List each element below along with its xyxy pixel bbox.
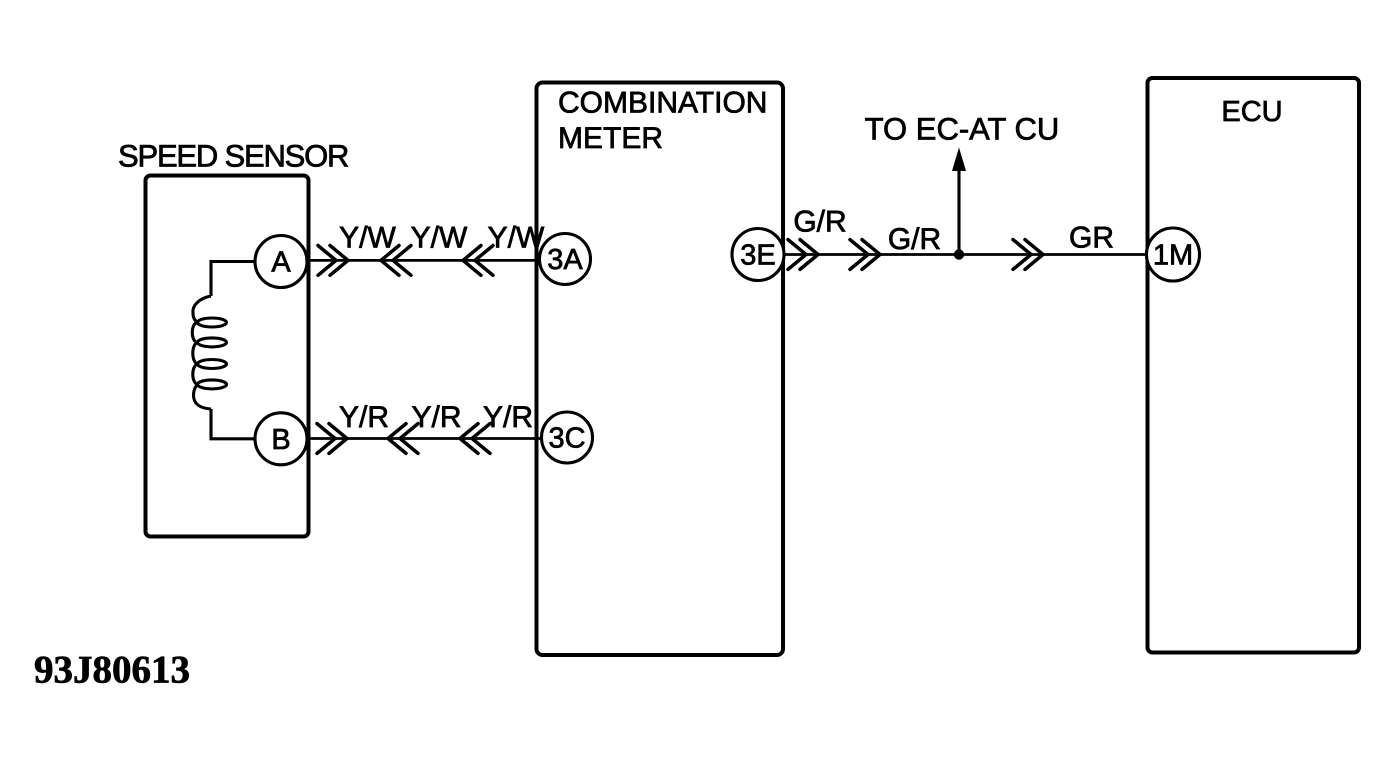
connector chevron left-pointing on Y/W wire (right) (463, 246, 493, 276)
svg-text:G/R: G/R (888, 223, 941, 256)
svg-text:ECU: ECU (1221, 96, 1282, 128)
terminal A (speed sensor pin A) (255, 236, 307, 288)
connector chevron left-pointing on Y/R wire (middle) (388, 424, 418, 454)
connector chevron left-pointing on Y/R wire (right) (460, 424, 490, 454)
svg-text:93J80613: 93J80613 (34, 649, 190, 692)
wire: terminal A to coil top (211, 262, 256, 297)
svg-text:B: B (271, 424, 290, 456)
terminal 3E (combination meter pin 3E) (732, 229, 784, 281)
combination meter box (537, 83, 784, 656)
svg-text:G/R: G/R (793, 206, 846, 239)
svg-text:3E: 3E (740, 240, 775, 272)
terminal 3C (combination meter pin 3C) (542, 412, 593, 463)
connector chevron right-pointing on Y/W wire (318, 246, 348, 276)
terminal 1M (ECU pin 1M) (1147, 228, 1200, 281)
svg-text:SPEED SENSOR: SPEED SENSOR (118, 139, 348, 174)
connector chevron right-pointing on Y/R wire (317, 424, 347, 454)
svg-text:3A: 3A (547, 244, 583, 276)
label: COMBINATION METER (558, 87, 767, 156)
terminal B (speed sensor pin B) (255, 413, 307, 465)
connector chevron right-pointing on G/R wire (third) (1013, 240, 1043, 270)
svg-text:Y/R: Y/R (483, 401, 533, 434)
svg-text:COMBINATION: COMBINATION (558, 87, 767, 120)
wire: 3E to 1M (G/R) (783, 253, 1148, 256)
svg-text:METER: METER (558, 122, 663, 155)
svg-text:GR: GR (1069, 222, 1114, 255)
wire: branch up to EC-AT CU (957, 163, 960, 255)
wire: A to 3A (Y/W) (307, 259, 541, 262)
wire: coil bottom to terminal B (211, 409, 256, 439)
arrowhead to EC-AT CU (952, 148, 966, 172)
svg-text:A: A (271, 247, 291, 279)
inductor coil L1 (speed sensor winding) (192, 296, 226, 409)
svg-text:1M: 1M (1153, 240, 1193, 272)
svg-text:Y/R: Y/R (411, 401, 461, 434)
svg-text:Y/R: Y/R (339, 401, 389, 434)
connector chevron right-pointing on G/R wire (at meter) (788, 240, 818, 270)
ECU box (1148, 78, 1360, 653)
svg-text:Y/W: Y/W (339, 222, 396, 255)
svg-text:Y/W: Y/W (411, 222, 468, 255)
svg-text:3C: 3C (548, 423, 585, 455)
connector chevron left-pointing on Y/W wire (middle) (381, 246, 411, 276)
wire: B to 3C (Y/R) (307, 437, 543, 440)
terminal 3A (combination meter pin 3A) (540, 234, 591, 285)
speed sensor box (146, 176, 309, 537)
svg-text:TO EC-AT CU: TO EC-AT CU (865, 112, 1060, 147)
connector chevron right-pointing on G/R wire (second) (850, 240, 880, 270)
node: junction dot on G/R wire (954, 249, 964, 259)
